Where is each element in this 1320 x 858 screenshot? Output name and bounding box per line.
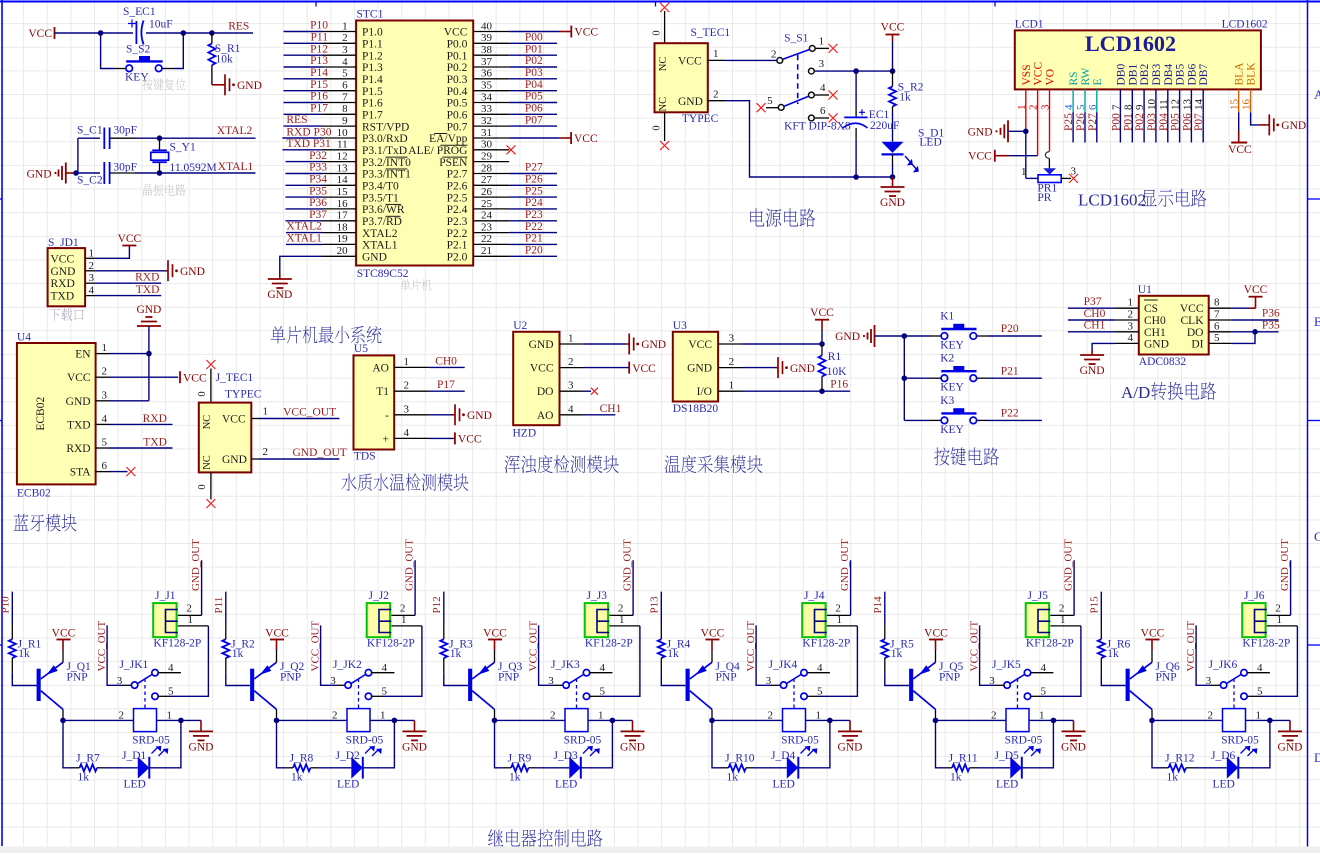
- svg-text:P06: P06: [525, 103, 543, 115]
- svg-text:2: 2: [332, 709, 338, 721]
- svg-text:2: 2: [771, 49, 777, 61]
- svg-text:5: 5: [342, 68, 348, 80]
- wire resistor to LED: [977, 767, 1010, 769]
- wire to LED branch: [1152, 720, 1161, 767]
- capacitor S_C1 30pF: [77, 125, 137, 149]
- LED J_D3: [554, 750, 581, 791]
- wire GND_OUT from connector pin2: [632, 560, 634, 615]
- power port VCC (relay block 3): [483, 627, 507, 662]
- transistor J_Q3 PNP: [468, 661, 522, 710]
- wire relay pin1 to ground: [1029, 709, 1074, 723]
- svg-text:P03: P03: [525, 67, 543, 79]
- svg-text:11: 11: [1158, 99, 1170, 110]
- power port VCC (S_JD1): [118, 233, 142, 246]
- wire U2 AO with net CH1: [584, 403, 622, 415]
- svg-text:RXD: RXD: [143, 413, 167, 425]
- svg-text:P1.0: P1.0: [362, 27, 383, 39]
- power port VCC (R1): [810, 307, 834, 344]
- svg-text:2: 2: [102, 366, 108, 378]
- ground (U1): [1091, 350, 1093, 355]
- svg-text:VCC: VCC: [28, 28, 52, 40]
- svg-text:SRD-05: SRD-05: [346, 734, 384, 746]
- svg-text:2: 2: [550, 709, 556, 721]
- svg-text:J_D6: J_D6: [1211, 750, 1236, 762]
- svg-text:3: 3: [729, 333, 735, 345]
- svg-text:3: 3: [89, 272, 95, 284]
- svg-text:1: 1: [188, 614, 194, 626]
- svg-text:S_Y1: S_Y1: [170, 141, 196, 153]
- svg-text:GND: GND: [529, 339, 554, 351]
- resistor S_R2 1k: [889, 71, 924, 106]
- wire VCC down to rail: [892, 35, 894, 72]
- relay coil SRD-05 (J_JK1): [132, 709, 170, 756]
- svg-text:4: 4: [820, 82, 826, 94]
- svg-text:9: 9: [342, 115, 348, 127]
- svg-text:2: 2: [1028, 105, 1040, 111]
- wire to transistor base: [661, 673, 685, 686]
- power port VCC (U4): [179, 371, 181, 383]
- svg-text:VCC: VCC: [222, 414, 246, 426]
- svg-text:J_TEC1: J_TEC1: [216, 372, 254, 384]
- svg-text:P3.4/T0: P3.4/T0: [362, 181, 399, 193]
- svg-text:GND: GND: [838, 741, 863, 753]
- svg-text:NC: NC: [658, 97, 669, 112]
- svg-text:16: 16: [337, 198, 349, 210]
- svg-text:GND: GND: [51, 266, 76, 278]
- svg-text:1: 1: [1060, 614, 1066, 626]
- svg-text:KF128-2P: KF128-2P: [367, 638, 415, 650]
- title: temperature acquisition module: [665, 455, 680, 473]
- svg-text:GND: GND: [880, 197, 905, 209]
- MCU GND pin 20 wire: [280, 256, 323, 273]
- U2 DO stub with no-connect: [584, 388, 598, 395]
- svg-text:R1: R1: [828, 351, 842, 363]
- svg-text:5: 5: [168, 685, 174, 697]
- ground (relay block 2): [414, 720, 416, 731]
- svg-text:35: 35: [481, 80, 493, 92]
- wire U1 VCC pin8 to power port: [1231, 284, 1267, 308]
- svg-text:XTAL2: XTAL2: [286, 221, 322, 233]
- svg-text:VCC_OUT: VCC_OUT: [1185, 620, 1197, 671]
- svg-text:PNP: PNP: [498, 671, 519, 683]
- svg-text:VCC: VCC: [968, 150, 992, 162]
- svg-text:P0.2: P0.2: [447, 62, 468, 74]
- svg-text:P01: P01: [525, 43, 543, 55]
- wire to transistor base: [885, 673, 909, 686]
- svg-text:1: 1: [102, 342, 108, 354]
- svg-text:RST/VPD: RST/VPD: [362, 121, 409, 133]
- svg-text:GND: GND: [237, 80, 262, 92]
- wire GND_OUT from connector pin2: [1290, 560, 1292, 615]
- svg-text:P1.6: P1.6: [362, 98, 383, 110]
- ground (key circuit): [835, 325, 904, 347]
- svg-text:CH0: CH0: [1144, 315, 1166, 327]
- svg-text:GND: GND: [189, 741, 214, 753]
- resistor J_R11 1k: [945, 752, 978, 783]
- wire J_TEC1 pin1 with net VCC_OUT: [259, 407, 340, 419]
- transistor J_Q5 PNP: [909, 661, 963, 710]
- svg-text:GND_OUT: GND_OUT: [1062, 539, 1074, 591]
- wire VCC_OUT to relay contact 3: [321, 625, 345, 685]
- connector J_J5 KF128-2P: [1026, 590, 1081, 650]
- pin-name overlines (active-low): [386, 134, 468, 217]
- svg-text:1: 1: [342, 20, 348, 32]
- wire relay pin1 to ground: [806, 709, 851, 723]
- LED J_D5: [995, 750, 1022, 791]
- relay coil SRD-05 (J_JK4): [781, 709, 819, 756]
- svg-text:AO: AO: [372, 362, 389, 374]
- wire J_TEC1 pin2 with net GND_OUT: [259, 447, 347, 459]
- svg-text:15: 15: [337, 186, 349, 198]
- svg-text:T1: T1: [376, 386, 389, 398]
- ground (U5): [452, 414, 455, 416]
- svg-text:EN: EN: [75, 349, 91, 361]
- svg-text:P11: P11: [213, 597, 225, 614]
- wire U4 RXD with net TXD: [110, 436, 173, 448]
- wire U3 VCC to R1 rail: [743, 341, 825, 347]
- ground (above U4): [136, 304, 161, 401]
- wire relay contact 5 to connector: [158, 626, 208, 696]
- svg-text:5: 5: [767, 95, 773, 107]
- svg-text:P3.3/INT1: P3.3/INT1: [362, 169, 411, 181]
- svg-text:18: 18: [337, 221, 349, 233]
- svg-text:J_JK6: J_JK6: [1209, 659, 1238, 671]
- svg-text:U4: U4: [17, 332, 31, 344]
- svg-text:J_JK3: J_JK3: [551, 659, 580, 671]
- svg-text:P23: P23: [525, 209, 543, 221]
- svg-text:2: 2: [89, 260, 95, 272]
- svg-text:P3.2/INT0: P3.2/INT0: [362, 157, 411, 169]
- resistor S_R1 10k: [208, 33, 240, 85]
- svg-text:1k: 1k: [291, 771, 303, 783]
- svg-text:HZD: HZD: [513, 428, 537, 440]
- svg-text:GND_OUT: GND_OUT: [1279, 539, 1291, 591]
- svg-text:P0.6: P0.6: [447, 110, 468, 122]
- svg-text:S_C1: S_C1: [77, 125, 103, 137]
- svg-text:1k: 1k: [450, 648, 462, 660]
- svg-text:LED: LED: [555, 779, 577, 791]
- svg-text:J_D3: J_D3: [554, 750, 579, 762]
- svg-text:1k: 1k: [509, 771, 521, 783]
- potentiometer PR1: [1021, 165, 1077, 204]
- svg-text:J_J5: J_J5: [1028, 590, 1049, 602]
- svg-text:P01: P01: [1122, 113, 1134, 131]
- svg-text:GND_OUT: GND_OUT: [293, 447, 347, 459]
- svg-text:22: 22: [481, 233, 492, 245]
- svg-text:1k: 1k: [667, 648, 679, 660]
- svg-text:1: 1: [401, 614, 407, 626]
- wire U5 minus to ground: [429, 414, 452, 416]
- svg-text:VCC: VCC: [632, 363, 656, 375]
- svg-text:1: 1: [816, 709, 822, 721]
- wire U1 DO with net P35: [1231, 320, 1280, 335]
- svg-text:GND: GND: [180, 266, 205, 278]
- no-connect X marks on S_S1 pins: [757, 44, 838, 123]
- svg-text:GND: GND: [222, 454, 247, 466]
- gray comment: crystal circuit: [143, 184, 152, 196]
- power port VCC (relay block 1): [52, 627, 76, 662]
- wire transistor collector to relay coil: [933, 709, 1006, 723]
- svg-text:GND: GND: [1144, 338, 1169, 350]
- svg-text:16: 16: [1241, 99, 1253, 111]
- svg-text:VCC: VCC: [483, 627, 507, 639]
- svg-text:P0.4: P0.4: [447, 86, 468, 98]
- svg-text:CH1: CH1: [600, 403, 622, 415]
- no-connect X below J_TEC1: [206, 499, 215, 508]
- svg-text:J_D2: J_D2: [336, 750, 361, 762]
- svg-text:P1.2: P1.2: [362, 50, 383, 62]
- IC U4 body (ECB02): [17, 332, 110, 500]
- svg-text:17: 17: [337, 210, 349, 222]
- svg-text:P2.7: P2.7: [447, 169, 468, 181]
- svg-text:3: 3: [404, 403, 410, 415]
- svg-text:DB4: DB4: [1163, 64, 1175, 86]
- key switch K2: [904, 353, 1042, 394]
- svg-text:P36: P36: [1262, 308, 1280, 320]
- wire U2 VCC to power port: [584, 367, 629, 369]
- svg-text:KFT DIP-8X8: KFT DIP-8X8: [784, 121, 851, 133]
- svg-text:4: 4: [89, 285, 95, 297]
- svg-text:1: 1: [1277, 614, 1283, 626]
- connector J_J6 KF128-2P: [1242, 590, 1297, 650]
- svg-text:VCC: VCC: [183, 372, 207, 384]
- svg-text:24: 24: [481, 210, 493, 222]
- svg-text:KEY: KEY: [940, 382, 964, 394]
- svg-text:1: 1: [598, 709, 604, 721]
- svg-text:K3: K3: [940, 395, 954, 407]
- wire VCC_OUT to relay contact 3: [539, 625, 563, 685]
- svg-text:5: 5: [1257, 685, 1263, 697]
- svg-text:2: 2: [729, 356, 735, 368]
- wire S_JD1 pin3 with net RXD: [96, 271, 162, 283]
- connector J_J2 KF128-2P: [367, 590, 422, 650]
- gray comment: key reset: [142, 78, 152, 90]
- svg-text:2: 2: [1128, 309, 1134, 321]
- svg-text:TYPEC: TYPEC: [225, 388, 262, 400]
- svg-text:P12: P12: [310, 43, 328, 55]
- svg-text:3: 3: [819, 58, 825, 70]
- wire LED cathode up to relay pin1: [363, 720, 395, 767]
- gray comment: download port: [49, 309, 60, 321]
- connector J_J3 KF128-2P: [585, 590, 640, 650]
- svg-text:GND: GND: [1061, 741, 1086, 753]
- no-connect X on MCU pin 30: [507, 145, 516, 154]
- svg-text:14: 14: [337, 174, 349, 186]
- svg-text:P26: P26: [1075, 113, 1087, 131]
- relay contacts J_JK2: [330, 659, 394, 709]
- svg-text:P14: P14: [872, 596, 884, 614]
- ground (below S_R1): [212, 74, 262, 95]
- title: power circuit: [750, 208, 764, 226]
- svg-text:VCC: VCC: [67, 372, 91, 384]
- svg-text:2: 2: [1208, 709, 1214, 721]
- svg-text:VCC: VCC: [1228, 144, 1252, 156]
- power port VCC (power circuit): [892, 34, 894, 36]
- svg-text:23: 23: [481, 221, 493, 233]
- svg-text:SRD-05: SRD-05: [1005, 734, 1043, 746]
- key switch S_S2: [101, 33, 184, 84]
- svg-text:GND: GND: [620, 741, 645, 753]
- svg-text:GND: GND: [1080, 365, 1105, 377]
- svg-text:1: 1: [1021, 166, 1027, 178]
- svg-text:VCC: VCC: [51, 253, 75, 265]
- ground (crystal circuit): [27, 163, 76, 184]
- svg-text:P33: P33: [309, 162, 327, 174]
- wire GND_OUT from connector pin2: [414, 560, 416, 615]
- svg-text:1: 1: [89, 247, 95, 259]
- svg-text:A: A: [1314, 87, 1320, 102]
- svg-text:P34: P34: [309, 174, 327, 186]
- svg-text:37: 37: [481, 56, 493, 68]
- svg-text:XTAL2: XTAL2: [362, 228, 398, 240]
- svg-text:TDS: TDS: [354, 450, 376, 462]
- svg-text:2: 2: [713, 88, 719, 100]
- svg-text:13: 13: [337, 162, 349, 174]
- svg-text:4: 4: [1063, 104, 1075, 110]
- svg-text:RXD: RXD: [51, 278, 75, 290]
- svg-text:VCC: VCC: [52, 627, 76, 639]
- wire P10 input: [11, 592, 13, 625]
- svg-text:TYPEC: TYPEC: [682, 113, 719, 125]
- svg-text:2: 2: [400, 603, 406, 615]
- svg-text:P02: P02: [1134, 113, 1146, 131]
- wire U5 T1 with net P17: [429, 379, 464, 391]
- svg-text:S_EC1: S_EC1: [123, 6, 156, 18]
- svg-text:DB2: DB2: [1139, 64, 1151, 86]
- wire GND_OUT from connector pin2: [1073, 560, 1075, 615]
- svg-text:P25: P25: [525, 185, 543, 197]
- svg-text:DB0: DB0: [1115, 64, 1127, 86]
- svg-text:LED: LED: [337, 779, 359, 791]
- svg-text:P2.1: P2.1: [447, 240, 468, 252]
- svg-text:10: 10: [1146, 99, 1158, 111]
- connector J_TEC1 TYPEC body: [197, 369, 268, 500]
- svg-text:P20: P20: [525, 245, 543, 257]
- LCD VCC pin2 wire and power port: [968, 112, 1037, 162]
- wire resistor to LED: [536, 767, 569, 769]
- svg-text:PR: PR: [1037, 192, 1051, 204]
- svg-text:P20: P20: [1001, 323, 1019, 335]
- svg-text:1: 1: [167, 709, 173, 721]
- ground (LCD backlight): [1266, 124, 1269, 126]
- svg-text:DO: DO: [1187, 327, 1204, 339]
- power port VCC (MCU pin 40): [571, 26, 598, 39]
- svg-text:PSEN: PSEN: [439, 157, 468, 169]
- svg-text:GND: GND: [968, 127, 993, 139]
- svg-text:PNP: PNP: [1156, 671, 1177, 683]
- svg-text:12: 12: [1170, 99, 1182, 110]
- wire S_JD1 pin2 to ground: [96, 270, 165, 272]
- svg-text:1: 1: [837, 614, 843, 626]
- svg-text:EA/Vpp: EA/Vpp: [429, 133, 468, 145]
- svg-text:7: 7: [342, 91, 348, 103]
- wire to LED branch: [277, 720, 286, 767]
- svg-text:20: 20: [337, 245, 349, 257]
- key bus vertical wire: [902, 333, 908, 420]
- svg-text:P11: P11: [311, 32, 329, 44]
- svg-text:DB1: DB1: [1127, 64, 1139, 86]
- svg-text:J_D4: J_D4: [771, 750, 796, 762]
- svg-text:1k: 1k: [18, 648, 30, 660]
- svg-text:LCD1602: LCD1602: [1222, 19, 1268, 31]
- LCD net wires for data/control pins: [1063, 112, 1205, 142]
- IC U5 body (TDS): [354, 343, 430, 462]
- power port VCC (MCU pin 31): [571, 132, 598, 145]
- wire GND_OUT from connector pin2: [850, 560, 852, 615]
- svg-text:ALE/ PROG: ALE/ PROG: [408, 145, 467, 157]
- svg-text:VCC: VCC: [1033, 62, 1045, 86]
- svg-text:J_JK4: J_JK4: [769, 659, 798, 671]
- svg-text:3: 3: [330, 675, 336, 687]
- wire U1 CLK with net P36: [1231, 308, 1280, 320]
- svg-text:3: 3: [548, 675, 554, 687]
- wire U4 TXD with net RXD: [110, 413, 173, 425]
- svg-text:XTAL2: XTAL2: [217, 125, 253, 137]
- svg-text:38: 38: [481, 44, 493, 56]
- svg-text:5: 5: [1214, 332, 1220, 344]
- svg-text:30: 30: [481, 139, 493, 151]
- svg-text:40: 40: [481, 20, 493, 32]
- svg-text:1: 1: [1256, 709, 1262, 721]
- svg-text:P10: P10: [0, 596, 12, 614]
- svg-text:VCC: VCC: [530, 363, 554, 375]
- svg-text:1: 1: [1039, 709, 1045, 721]
- wire U1 CS with net P37: [1068, 296, 1115, 308]
- svg-text:SRD-05: SRD-05: [132, 734, 170, 746]
- ground (MCU pin 20): [279, 273, 281, 279]
- svg-text:GND_OUT: GND_OUT: [403, 539, 415, 591]
- svg-text:21: 21: [481, 245, 492, 257]
- svg-text:J_R12: J_R12: [1165, 752, 1195, 764]
- relay contacts J_JK1: [117, 659, 181, 709]
- svg-text:2: 2: [342, 32, 348, 44]
- svg-text:2: 2: [618, 603, 624, 615]
- svg-text:P13: P13: [310, 55, 328, 67]
- svg-text:LED: LED: [773, 779, 795, 791]
- wire S_TEC1 pin1 to switch: [725, 59, 776, 61]
- svg-text:DI: DI: [1191, 338, 1203, 350]
- svg-text:34: 34: [481, 91, 493, 103]
- svg-text:0: 0: [197, 391, 208, 396]
- svg-text:5: 5: [102, 437, 108, 449]
- svg-text:3: 3: [1040, 104, 1052, 110]
- svg-text:39: 39: [481, 32, 493, 44]
- svg-text:P14: P14: [310, 67, 328, 79]
- svg-text:P15: P15: [310, 79, 328, 91]
- svg-text:0: 0: [197, 484, 208, 489]
- connector J_J4 KF128-2P: [802, 590, 857, 650]
- wire VCC_OUT to relay contact 3: [980, 625, 1004, 685]
- svg-text:J_D1: J_D1: [122, 750, 147, 762]
- svg-text:2: 2: [1059, 603, 1065, 615]
- svg-text:GND_OUT: GND_OUT: [621, 539, 633, 591]
- wire S_JD1 pin1 to VCC: [96, 246, 130, 259]
- wire LED cathode up to relay pin1: [581, 720, 613, 767]
- title: MCU minimum system: [271, 326, 286, 343]
- svg-text:GND: GND: [641, 339, 666, 351]
- wire relay contact 5 to connector: [807, 626, 857, 696]
- svg-text:4: 4: [568, 403, 574, 415]
- svg-text:LCD1602: LCD1602: [1085, 31, 1176, 56]
- wire U5 AO with net CH0: [429, 355, 464, 367]
- svg-text:6: 6: [820, 105, 826, 117]
- svg-text:1: 1: [263, 406, 269, 418]
- relay contacts J_JK3: [548, 659, 612, 709]
- svg-text:3: 3: [102, 389, 108, 401]
- wire to transistor base: [12, 673, 36, 686]
- LED J_D4: [771, 750, 798, 791]
- svg-text:2: 2: [768, 709, 774, 721]
